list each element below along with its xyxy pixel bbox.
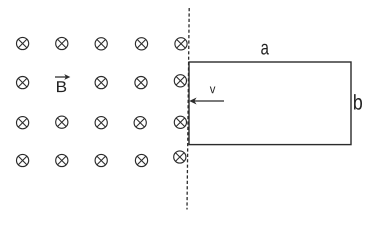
field symbol r3c4 (134, 117, 146, 129)
field symbol r1c1 (17, 37, 29, 49)
field symbol r1c5 (175, 38, 187, 50)
field symbol r3c2 (56, 116, 68, 128)
label b (354, 94, 362, 110)
field symbol r2c3 (95, 77, 107, 89)
field symbol r1c2 (56, 37, 68, 49)
field symbol r3c1 (17, 117, 29, 129)
field symbol r2c1 (17, 77, 29, 89)
field symbol r2c5 (174, 75, 186, 87)
field symbol r4c4 (135, 154, 147, 166)
dashed boundary line (187, 8, 189, 210)
field symbol r4c3 (95, 154, 107, 166)
field symbol r1c4 (135, 38, 147, 50)
field symbol r1c3 (95, 38, 107, 50)
field symbol r4c1 (17, 154, 29, 166)
loop rectangle (189, 62, 351, 145)
field symbol r4c2 (56, 154, 68, 166)
field symbol r2c4 (135, 77, 147, 89)
label a (261, 44, 269, 55)
vector B label (55, 74, 70, 92)
field symbol r3c3 (95, 117, 107, 129)
velocity arrow v (189, 87, 224, 105)
field symbol r4c5 (174, 151, 186, 163)
field symbol r3c5 (174, 116, 186, 128)
